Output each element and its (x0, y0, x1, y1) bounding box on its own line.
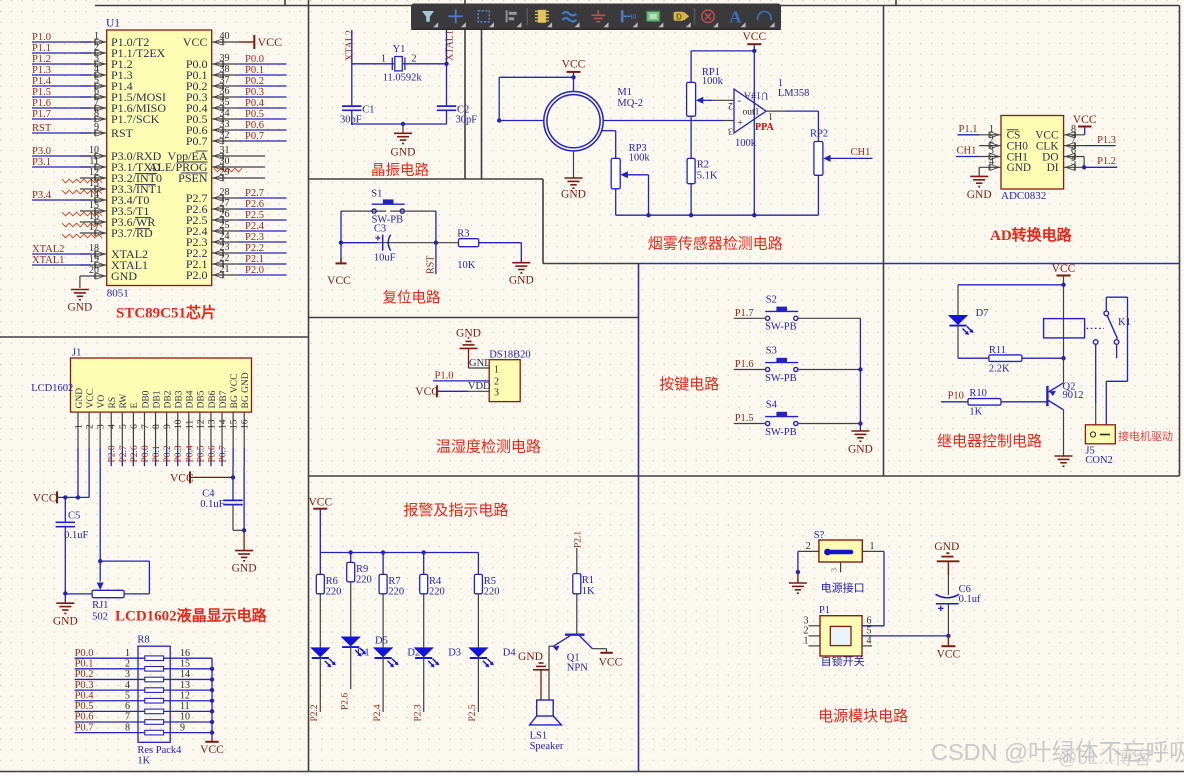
wire (80, 166, 107, 168)
wire (712, 99, 733, 101)
svg-text:MQ-2: MQ-2 (617, 98, 643, 109)
ground (71, 290, 89, 300)
junction (946, 634, 950, 638)
wire (177, 412, 179, 448)
svg-text:P0.2: P0.2 (163, 445, 173, 462)
svg-text:RST: RST (425, 256, 436, 274)
wire (498, 77, 500, 120)
wire (80, 264, 107, 266)
ground (970, 176, 988, 186)
wire (797, 551, 799, 572)
svg-text:27: 27 (220, 198, 230, 209)
wire (958, 357, 989, 359)
svg-text:K1: K1 (1118, 317, 1131, 328)
op-amp U1A LM358 (734, 89, 766, 133)
capacitor C2 (437, 106, 456, 110)
svg-text:GND: GND (232, 563, 257, 575)
svg-text:13: 13 (89, 178, 99, 189)
wire (80, 155, 107, 157)
svg-text:P1.1: P1.1 (959, 124, 978, 135)
svg-text:37: 37 (220, 75, 230, 86)
wire (80, 63, 107, 65)
resistor R8 element 1 (145, 656, 164, 661)
wire (1106, 380, 1127, 382)
svg-text:2: 2 (125, 659, 130, 670)
svg-text:19: 19 (89, 254, 99, 265)
wire (32, 107, 91, 109)
svg-text:17: 17 (89, 222, 99, 233)
wire (239, 274, 287, 276)
svg-text:P0.7: P0.7 (75, 722, 94, 733)
wire (210, 412, 212, 448)
wire (979, 166, 1001, 168)
wire (99, 412, 101, 448)
power port VCC (LCD right) (189, 471, 191, 483)
wire (124, 593, 149, 595)
wire (77, 412, 79, 448)
wire (548, 646, 550, 700)
wire (809, 645, 821, 647)
wire (75, 732, 145, 734)
svg-text:4: 4 (94, 64, 99, 75)
junction (752, 49, 756, 53)
wire (809, 625, 821, 627)
reset section (327, 189, 534, 307)
pin 26 P2.5 (214, 217, 224, 223)
svg-text:8: 8 (94, 108, 99, 119)
wire (1063, 276, 1065, 359)
svg-text:1: 1 (494, 364, 499, 375)
wire (199, 412, 201, 448)
svg-text:烟雾传感器检测电路: 烟雾传感器检测电路 (648, 236, 783, 253)
wire (212, 96, 239, 98)
svg-text:RP2: RP2 (810, 129, 828, 140)
wire (212, 63, 239, 65)
wire (862, 550, 884, 552)
svg-text:1: 1 (870, 541, 875, 552)
power module section (789, 530, 981, 725)
junction (1061, 356, 1065, 360)
svg-text:P0.1: P0.1 (245, 65, 264, 76)
wire (80, 232, 107, 234)
svg-text:DB7: DB7 (219, 390, 229, 408)
svg-text:P2.0: P2.0 (245, 265, 264, 276)
svg-text:D1: D1 (357, 648, 370, 659)
svg-text:31: 31 (220, 145, 230, 156)
junction (76, 495, 80, 499)
svg-text:P1.6: P1.6 (735, 359, 754, 370)
wire (212, 155, 265, 157)
potentiometer RP2 (814, 142, 823, 176)
svg-text:VCC: VCC (170, 473, 194, 485)
divider: left column vertical (308, 0, 310, 772)
svg-text:P3.4: P3.4 (32, 190, 52, 201)
resistor R2 (687, 158, 695, 183)
crystal Y1 (392, 57, 405, 71)
wire (32, 118, 91, 120)
svg-text:11: 11 (185, 420, 195, 429)
pin 21 P2.0 (214, 272, 224, 278)
wire (1095, 344, 1097, 403)
svg-text:P0.3: P0.3 (174, 445, 184, 462)
wire (734, 317, 766, 319)
divider: reset box bottom (309, 317, 639, 319)
wire (80, 85, 107, 87)
svg-text:P1.6: P1.6 (32, 98, 51, 109)
toolbar icon: IC part (535, 10, 549, 23)
svg-text:GND: GND (848, 444, 873, 456)
wire (402, 124, 404, 133)
wire (1106, 296, 1127, 298)
svg-text:VCC: VCC (183, 35, 208, 49)
pin 38 P0.1 (214, 72, 224, 78)
power port VCC (340, 258, 342, 263)
svg-text:C5: C5 (68, 511, 80, 522)
svg-text:P2.3: P2.3 (245, 232, 264, 243)
wire (32, 74, 91, 76)
svg-text:GND: GND (391, 147, 416, 159)
svg-text:P0.2: P0.2 (245, 76, 264, 87)
toolbar icon: arc (758, 12, 772, 21)
power jack S? body (819, 540, 862, 562)
divider: middle vertical (navy) (638, 264, 640, 772)
svg-text:DB2: DB2 (163, 390, 173, 408)
wire (606, 649, 608, 653)
divider: sheet right border (1179, 6, 1181, 477)
switch S1 (372, 200, 405, 213)
svg-text:4: 4 (125, 680, 130, 691)
wire (243, 412, 245, 448)
svg-text:29: 29 (220, 167, 230, 178)
wire (32, 199, 91, 201)
svg-text:LCD1602液晶显示电路: LCD1602液晶显示电路 (115, 607, 268, 625)
wire (479, 242, 522, 244)
capacitor C6 (polarized) (947, 561, 949, 575)
wire (75, 678, 145, 680)
wire (65, 593, 92, 595)
junction (796, 570, 800, 574)
compile-error squiggle (62, 223, 102, 227)
svg-text:继电器控制电路: 继电器控制电路 (937, 433, 1042, 450)
toolbar icon: selection rect (478, 11, 489, 22)
wire (212, 208, 239, 210)
svg-text:P10: P10 (948, 390, 964, 401)
wire (88, 412, 90, 448)
divider: smoke box left (481, 6, 483, 180)
svg-text:VCC: VCC (599, 657, 623, 669)
wire (862, 635, 948, 637)
toolbar icon: power port (674, 12, 690, 21)
wire (341, 210, 386, 212)
wire (212, 107, 239, 109)
svg-text:P2.0: P2.0 (108, 445, 118, 462)
svg-text:220: 220 (484, 587, 500, 598)
sensor M1 MQ-2 (544, 92, 603, 151)
wire (164, 732, 212, 734)
wire (80, 107, 107, 109)
svg-text:GND: GND (934, 541, 959, 553)
svg-text:P3.0: P3.0 (32, 146, 51, 157)
svg-text:15: 15 (180, 659, 190, 670)
wire (99, 466, 101, 581)
resistor R8 element 6 (145, 709, 164, 714)
svg-text:0.1uf: 0.1uf (959, 594, 981, 605)
junction (98, 559, 102, 563)
wire (477, 553, 479, 575)
wire (212, 129, 239, 131)
svg-text:D5: D5 (375, 635, 388, 646)
wire (382, 553, 384, 575)
transistor Q2 9012 (1047, 383, 1063, 410)
wire (212, 85, 239, 87)
svg-text:5.1K: 5.1K (697, 170, 718, 181)
svg-text:C1: C1 (362, 105, 374, 116)
svg-text:D4: D4 (503, 648, 517, 659)
svg-text:220: 220 (429, 587, 445, 598)
svg-text:AD转换电路: AD转换电路 (990, 226, 1073, 244)
svg-text:21: 21 (220, 264, 230, 275)
svg-text:接电机驱动: 接电机驱动 (1118, 429, 1173, 443)
wire (164, 668, 212, 670)
svg-text:7: 7 (141, 424, 151, 429)
divider: crystal box bottom (309, 178, 544, 180)
svg-text:GND: GND (509, 275, 534, 287)
svg-text:GND: GND (75, 388, 85, 409)
svg-text:11: 11 (180, 701, 190, 712)
svg-text:10: 10 (89, 145, 99, 156)
transistor Q1 NPN (553, 635, 593, 651)
svg-text:2: 2 (86, 424, 96, 429)
switch S3 (765, 359, 798, 372)
wire (753, 44, 755, 215)
wire (573, 72, 575, 92)
wire (690, 184, 692, 216)
wire (212, 74, 239, 76)
wire (1064, 134, 1085, 136)
wire (859, 318, 861, 430)
wire (1063, 410, 1065, 456)
RP1 wiper (696, 97, 704, 104)
svg-text:34: 34 (220, 108, 230, 119)
wire (862, 645, 872, 647)
svg-text:J1: J1 (72, 348, 81, 359)
svg-text:P0.6: P0.6 (207, 445, 217, 462)
svg-text:40: 40 (220, 31, 230, 42)
svg-text:P2.6: P2.6 (130, 445, 140, 462)
svg-text:4: 4 (867, 635, 872, 646)
svg-text:DI: DI (1047, 162, 1059, 174)
svg-text:P1.5: P1.5 (32, 87, 51, 98)
divider: crystal box right (464, 0, 466, 179)
svg-text:S4: S4 (766, 400, 778, 411)
pin 31 Vpp/EA (214, 153, 224, 159)
wire (499, 120, 544, 122)
wire (691, 50, 754, 52)
svg-text:自锁开关: 自锁开关 (821, 654, 865, 668)
connector J5 CON2 (1085, 425, 1115, 444)
wire (100, 560, 149, 562)
toolbar icon: ground (591, 10, 605, 21)
svg-text:P0.0: P0.0 (75, 648, 94, 659)
junction (1061, 283, 1065, 287)
pin 40 VCC (214, 39, 224, 45)
svg-text:0.1uF: 0.1uF (64, 530, 88, 541)
pin 23 P2.2 (214, 250, 224, 256)
wire (239, 230, 287, 232)
svg-text:35: 35 (220, 97, 230, 108)
svg-text:16: 16 (180, 648, 190, 659)
wire (979, 156, 1001, 158)
wire (435, 211, 437, 274)
wire (627, 174, 649, 176)
wire (603, 120, 722, 122)
wire (978, 167, 980, 176)
wire (941, 401, 968, 403)
svg-text:2: 2 (494, 377, 499, 388)
wire (1085, 145, 1116, 147)
wire (956, 156, 979, 158)
pin 28 P2.7 (214, 195, 224, 201)
svg-text:2.2K: 2.2K (989, 364, 1010, 375)
wire (75, 700, 145, 702)
wire (64, 527, 66, 603)
junction (497, 118, 501, 122)
junction (1082, 165, 1086, 169)
svg-text:1K: 1K (137, 756, 150, 767)
wire (221, 412, 223, 448)
resistor R10 (968, 399, 1001, 406)
svg-text:R1: R1 (582, 575, 594, 586)
svg-text:GND: GND (1007, 162, 1031, 174)
svg-text:VCC: VCC (562, 59, 586, 71)
wire (32, 132, 91, 134)
svg-text:2: 2 (94, 42, 99, 53)
wire (80, 210, 107, 212)
resistor R3 (459, 239, 479, 247)
wire (211, 658, 213, 739)
divider: smoke box step (542, 179, 544, 264)
svg-text:14: 14 (89, 189, 99, 200)
wire (239, 197, 287, 199)
svg-text:P2.3: P2.3 (414, 704, 424, 721)
wire (233, 529, 244, 531)
pin 25 P2.4 (214, 228, 224, 234)
svg-text:P0.3: P0.3 (245, 87, 264, 98)
wire (79, 276, 81, 288)
svg-text:10: 10 (180, 712, 190, 723)
svg-text:VCC: VCC (33, 493, 57, 505)
svg-text:26: 26 (220, 209, 230, 220)
svg-text:U1: U1 (106, 18, 120, 30)
wire (80, 52, 107, 54)
svg-text:VCC: VCC (742, 31, 766, 43)
svg-text:R10: R10 (969, 388, 987, 399)
capacitor C3 (polarized) (383, 235, 391, 251)
svg-text:100k: 100k (702, 76, 724, 87)
wire (132, 412, 134, 448)
toolbar icon: no-ERC (702, 10, 715, 23)
svg-text:P0.4: P0.4 (75, 690, 95, 701)
wire (1084, 166, 1117, 168)
inverted ground (speaker) (540, 670, 542, 700)
svg-text:13: 13 (207, 419, 217, 429)
svg-text:6: 6 (94, 86, 99, 97)
wire (212, 252, 239, 254)
wire (80, 275, 107, 277)
svg-text:D: D (676, 12, 682, 21)
svg-text:D2: D2 (407, 648, 420, 659)
svg-text:2: 2 (989, 135, 994, 146)
switch S2 (765, 307, 798, 320)
svg-text:D7: D7 (976, 308, 989, 319)
power port VCC (Q1) (600, 652, 612, 654)
wire (164, 721, 212, 723)
wire (798, 369, 861, 371)
svg-text:28: 28 (220, 187, 230, 198)
speaker LS1 (530, 700, 562, 725)
wire (436, 242, 459, 244)
wire (576, 594, 578, 634)
wire (212, 177, 265, 179)
floating toolbar (411, 4, 781, 31)
wire (32, 155, 91, 157)
wire (786, 110, 818, 112)
svg-text:30pF: 30pF (456, 114, 478, 125)
wire (423, 657, 425, 712)
compile-error squiggle (62, 234, 102, 238)
wire (75, 657, 145, 659)
IC U2 ADC0832 body (1001, 116, 1064, 190)
wire (32, 264, 91, 266)
wire (80, 177, 107, 179)
wire (212, 197, 239, 199)
wire (164, 700, 212, 702)
svg-text:5: 5 (125, 690, 130, 701)
svg-text:R4: R4 (429, 576, 442, 587)
wire (80, 253, 107, 255)
RP3 wiper (620, 171, 628, 178)
wire (239, 252, 287, 254)
wire (232, 466, 234, 500)
svg-text:复位电路: 复位电路 (383, 289, 441, 307)
svg-text:100k: 100k (629, 152, 651, 163)
svg-text:9: 9 (180, 722, 185, 733)
svg-text:P0.4: P0.4 (185, 445, 195, 462)
resistor R7 (379, 574, 387, 593)
svg-text:9012: 9012 (1063, 390, 1084, 401)
wire (390, 210, 436, 212)
svg-text:R2: R2 (697, 160, 709, 171)
ground (565, 178, 583, 188)
junction (210, 688, 214, 692)
svg-text:P0.5: P0.5 (75, 701, 94, 712)
svg-text:SW-PB: SW-PB (765, 322, 797, 333)
svg-text:ADC0832: ADC0832 (1001, 190, 1046, 202)
pin 39 P0.0 (214, 61, 224, 67)
wire (433, 380, 489, 382)
toolbar icon: wires (562, 12, 576, 21)
svg-text:R8: R8 (137, 634, 149, 645)
svg-text:P3.1: P3.1 (32, 157, 51, 168)
junction (210, 730, 214, 734)
wire (499, 76, 573, 78)
svg-text:16: 16 (241, 419, 251, 429)
svg-text:P2.5: P2.5 (468, 704, 478, 721)
capacitor C1 (342, 106, 361, 110)
svg-text:5: 5 (94, 75, 99, 86)
svg-text:R6: R6 (326, 576, 338, 587)
wire (64, 497, 66, 522)
